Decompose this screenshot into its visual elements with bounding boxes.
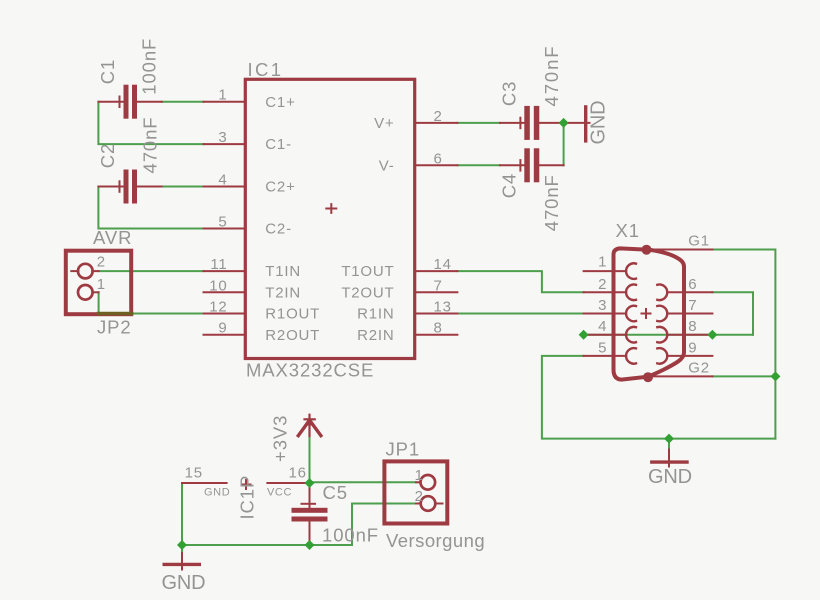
connector JP1 [384, 461, 447, 523]
junction VCC node [305, 478, 315, 488]
IC1 pin 12 stub [204, 313, 246, 315]
IC1 pin 11 stub [204, 270, 246, 272]
svg-text:14: 14 [434, 256, 452, 273]
junction C3 right [559, 118, 569, 128]
wire C2 right to IC pin4 [162, 186, 204, 188]
svg-text:GND: GND [588, 101, 610, 145]
X1 contact arc pin5 [626, 348, 636, 364]
svg-text:C4: C4 [499, 173, 520, 198]
supply +3V3 arrow [298, 415, 321, 436]
svg-text:Versorgung: Versorgung [386, 530, 485, 551]
olive overlap JP2 bottom edge [99, 312, 132, 316]
svg-text:100nF: 100nF [322, 525, 379, 546]
svg-text:GND: GND [204, 486, 230, 498]
svg-text:T2OUT: T2OUT [341, 284, 394, 301]
junction ground run [664, 434, 674, 444]
junction X1 pin4 [579, 330, 589, 340]
IC1 pin 5 stub [204, 228, 246, 230]
X1 contact arc pin4 [626, 327, 636, 343]
wire C2 left down to IC pin5 [98, 187, 203, 229]
svg-text:G1: G1 [688, 233, 710, 250]
svg-text:C2: C2 [97, 143, 118, 168]
svg-text:IC1: IC1 [248, 59, 284, 80]
svg-text:T1IN: T1IN [265, 263, 301, 280]
svg-text:C2+: C2+ [265, 179, 295, 196]
X1 pin 7 stub [667, 313, 712, 315]
ground symbol bottom left [164, 553, 199, 570]
wire bottom run [182, 544, 352, 546]
svg-text:7: 7 [688, 297, 697, 314]
X1 contact arc pin6 [657, 284, 667, 300]
svg-text:IC1P: IC1P [237, 475, 258, 520]
X1 contact arc pin1 [626, 263, 636, 279]
IC1 pin 3 stub [204, 143, 246, 145]
X1 pin 8 stub [667, 334, 712, 336]
svg-text:C3: C3 [499, 81, 520, 106]
capacitor C5 [292, 483, 328, 545]
capacitor C3 [500, 106, 564, 140]
svg-text:C2-: C2- [265, 221, 292, 238]
svg-text:R2OUT: R2OUT [265, 327, 320, 344]
svg-text:2: 2 [434, 108, 443, 125]
svg-text:1: 1 [97, 276, 106, 293]
IC1 origin cross [326, 204, 336, 213]
svg-text:4: 4 [598, 318, 607, 335]
wire VCC node to JP1 pin1 [310, 481, 417, 483]
IC1 pin 1 stub [204, 101, 246, 103]
capacitor C4 [500, 148, 564, 182]
X1 pin 5 stub [584, 355, 627, 357]
wire +3V3 down to VCC node [309, 434, 311, 484]
svg-text:GND: GND [162, 572, 206, 594]
svg-text:T2IN: T2IN [265, 284, 301, 301]
svg-text:10: 10 [209, 277, 227, 294]
wire JP2 pin1 down to IC pin12 [99, 292, 204, 313]
X1 shield pin G2 dot [643, 372, 653, 382]
svg-text:5: 5 [218, 214, 227, 231]
svg-text:9: 9 [218, 320, 227, 337]
svg-text:AVR: AVR [93, 227, 132, 248]
svg-text:11: 11 [210, 256, 227, 273]
wire X1 pin4 to pin8 row [584, 334, 753, 336]
svg-text:1: 1 [218, 87, 227, 104]
svg-text:470nF: 470nF [140, 117, 161, 174]
X1 pin G2 stub [652, 375, 712, 377]
svg-text:C1+: C1+ [265, 94, 295, 111]
IC IC1 body [245, 79, 414, 358]
svg-text:X1: X1 [616, 220, 640, 241]
wire R1IN to X1 pin3 [457, 313, 583, 315]
wire V- to C4 [457, 164, 500, 166]
IC1 pin 2 stub [415, 122, 457, 124]
svg-text:V+: V+ [374, 115, 394, 132]
IC1 pin 6 stub [415, 164, 457, 166]
IC1 pin 9 stub [204, 334, 246, 336]
svg-text:T1OUT: T1OUT [341, 263, 394, 280]
svg-text:2: 2 [598, 276, 607, 293]
wires group [98, 102, 775, 554]
svg-text:470nF: 470nF [541, 45, 562, 107]
svg-text:6: 6 [688, 276, 697, 293]
X1 contact arc pin2 [626, 284, 636, 300]
svg-text:G2: G2 [688, 359, 710, 376]
svg-text:470nF: 470nF [541, 174, 562, 231]
X1 contact arc pin3 [626, 306, 636, 322]
svg-text:GND: GND [648, 466, 692, 488]
X1 shield pin G1 dot [642, 245, 652, 255]
junction right rail G2 [770, 371, 780, 381]
X1 contact arc pin7 [657, 306, 667, 322]
capacitor C2 [98, 170, 161, 204]
X1 contact arc pin8 [657, 327, 667, 343]
svg-text:3: 3 [218, 129, 227, 146]
wire JP2 pin2 to IC pin11 [99, 270, 204, 272]
wire C1 left down to IC pin3 [98, 102, 203, 144]
svg-text:13: 13 [434, 299, 452, 316]
wire V+ to C3 [457, 122, 500, 124]
svg-text:C1-: C1- [265, 136, 292, 153]
X1 pin 9 stub [667, 355, 712, 357]
wire G2 to right rail [712, 375, 775, 377]
IC1 pin 13 stub [415, 313, 457, 315]
IC1 pin 4 stub [204, 186, 246, 188]
IC1 pin 8 stub [415, 334, 457, 336]
X1 pin 3 stub [584, 313, 627, 315]
svg-text:5: 5 [598, 339, 607, 356]
wire C3 right to C4 right vertical [563, 123, 565, 165]
capacitor C1 [98, 85, 161, 119]
X1 pin G1 stub [649, 249, 712, 251]
svg-text:8: 8 [434, 320, 443, 337]
junction X1 pin8 [707, 330, 717, 340]
IC1P pin 15 stub [182, 482, 227, 484]
svg-text:9: 9 [688, 339, 697, 356]
svg-text:MAX3232CSE: MAX3232CSE [246, 360, 374, 381]
connector X1 DB9 outline [614, 248, 685, 379]
X1 contact arc pin9 [657, 348, 667, 364]
svg-text:100nF: 100nF [139, 38, 160, 95]
wire T1OUT to X1 pin2 [457, 271, 583, 292]
X1 pin 1 stub [584, 270, 627, 272]
IC1P origin cross [242, 480, 251, 489]
svg-text:4: 4 [218, 172, 227, 189]
svg-text:R2IN: R2IN [357, 327, 394, 344]
svg-text:1: 1 [598, 254, 607, 271]
svg-text:7: 7 [434, 277, 443, 294]
svg-text:12: 12 [209, 299, 227, 316]
svg-text:6: 6 [434, 150, 443, 167]
component group (dark red) [66, 79, 713, 569]
X1 pin 4 stub [584, 334, 627, 336]
wire JP1 pin2 loop down [352, 504, 416, 546]
X1 pin 6 stub [667, 291, 712, 293]
svg-text:16: 16 [289, 465, 307, 482]
IC1 pin 14 stub [415, 270, 457, 272]
wire X1 pin6 loop [712, 292, 753, 334]
ground symbol right of C3 (rotated) [565, 107, 590, 141]
IC1P pin 16 stub [267, 482, 309, 484]
wire X1 pin5 to ground run [542, 356, 776, 439]
svg-text:2: 2 [415, 488, 424, 505]
svg-text:8: 8 [688, 318, 697, 335]
svg-text:3: 3 [598, 297, 607, 314]
svg-text:JP2: JP2 [97, 317, 132, 338]
svg-text:2: 2 [97, 253, 106, 270]
wire C1 right to IC pin1 [162, 101, 204, 103]
svg-text:VCC: VCC [267, 486, 292, 498]
X1 origin cross [642, 309, 651, 318]
svg-text:+3V3: +3V3 [270, 415, 291, 462]
svg-text:JP1: JP1 [386, 439, 421, 460]
wire GND left vertical [181, 483, 183, 554]
wire gnd stub below X1 [668, 439, 670, 451]
X1 pin 2 stub [584, 291, 627, 293]
ground symbol below X1 [652, 450, 687, 467]
svg-text:C1: C1 [97, 59, 118, 84]
IC1 pin 7 stub [415, 291, 457, 293]
svg-text:V-: V- [379, 157, 395, 174]
svg-text:R1OUT: R1OUT [265, 306, 320, 323]
svg-text:15: 15 [185, 465, 203, 482]
svg-text:1: 1 [415, 467, 424, 484]
svg-text:R1IN: R1IN [357, 306, 394, 323]
IC1 pin 10 stub [204, 291, 246, 293]
junction GND left [177, 540, 187, 550]
wire G1 to right rail [712, 250, 775, 439]
connector JP2 [66, 251, 131, 315]
junction C5 bottom [305, 540, 315, 550]
svg-text:C5: C5 [323, 482, 348, 503]
